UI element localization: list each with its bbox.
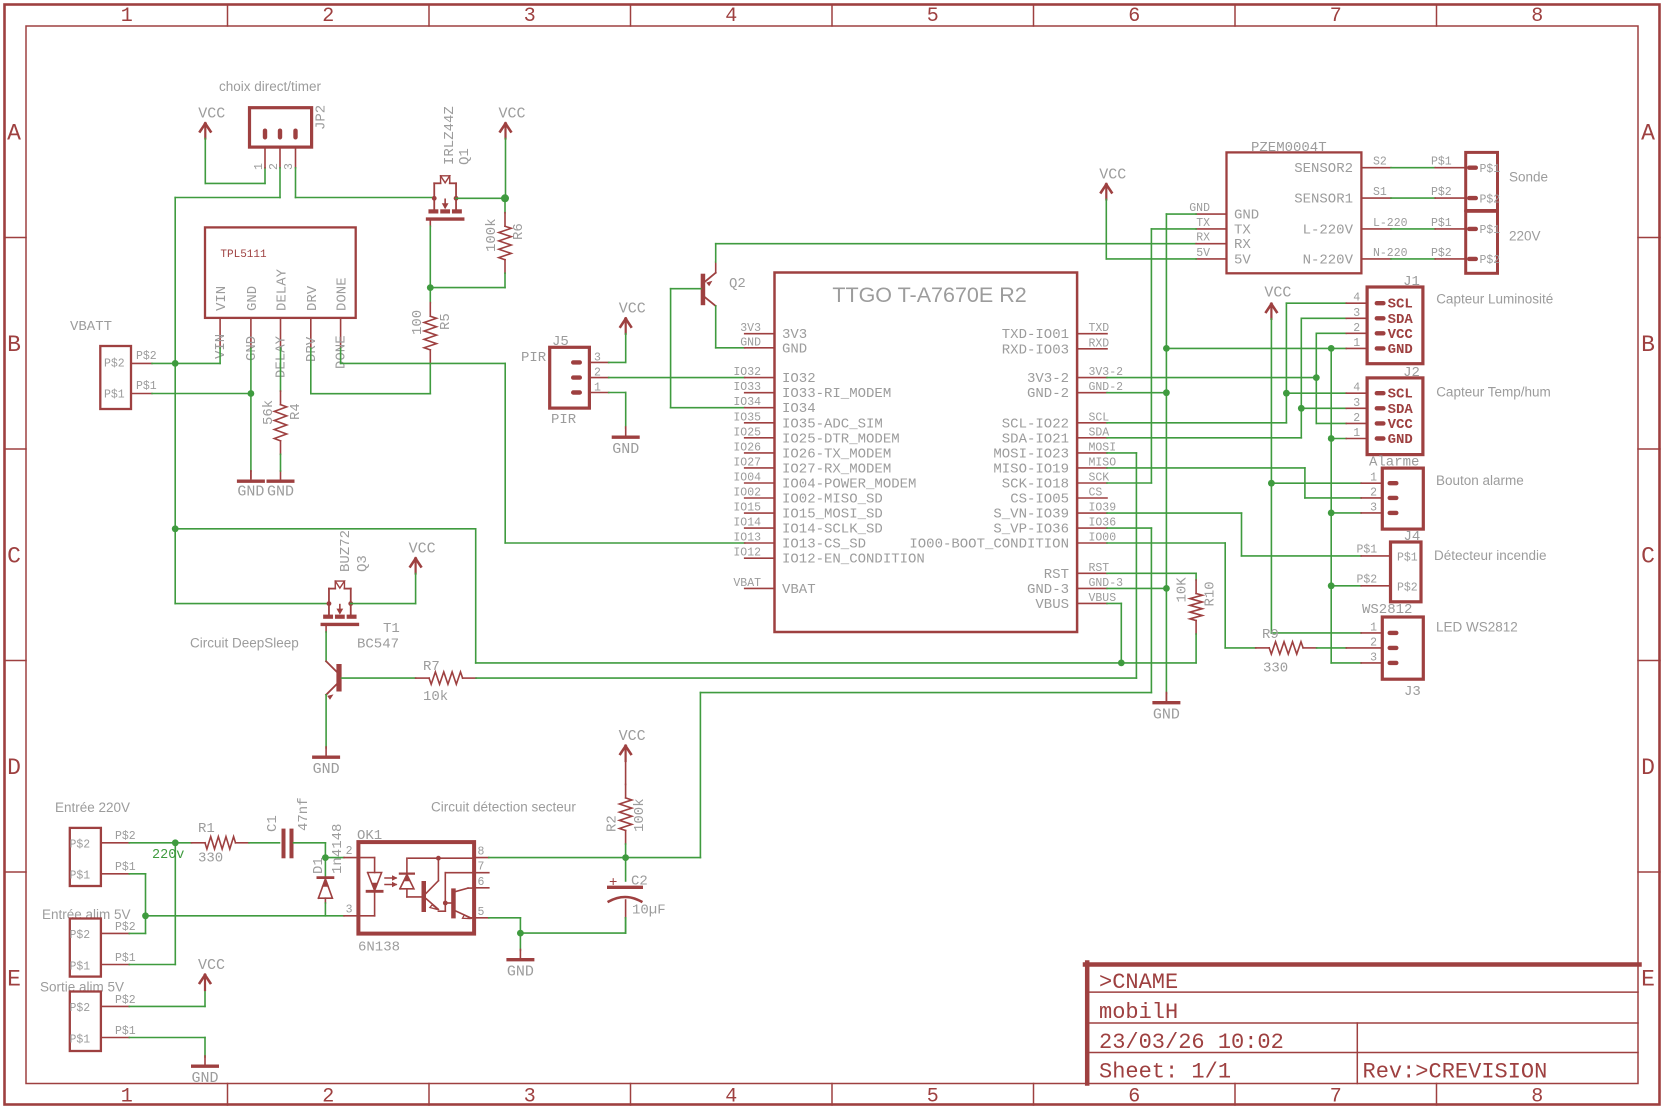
svg-text:R9: R9 <box>1262 627 1279 643</box>
svg-text:P$2: P$2 <box>136 350 157 363</box>
svg-text:3: 3 <box>1353 397 1360 410</box>
svg-text:P$2: P$2 <box>1480 254 1501 267</box>
svg-text:P$1: P$1 <box>1431 217 1452 230</box>
svg-text:A: A <box>7 120 21 146</box>
svg-text:1: 1 <box>121 5 133 28</box>
svg-text:S_VN-IO39: S_VN-IO39 <box>993 507 1069 523</box>
svg-text:P$1: P$1 <box>1397 552 1418 565</box>
svg-text:8: 8 <box>478 846 485 859</box>
svg-text:8: 8 <box>1531 1086 1543 1109</box>
svg-text:47nf: 47nf <box>296 797 312 831</box>
svg-text:330: 330 <box>1263 661 1288 677</box>
svg-text:R5: R5 <box>438 313 454 330</box>
svg-text:7: 7 <box>478 861 485 874</box>
svg-text:IO13: IO13 <box>733 532 761 545</box>
svg-text:VCC: VCC <box>1264 284 1291 301</box>
svg-text:1: 1 <box>1353 427 1360 440</box>
svg-text:TX: TX <box>1234 222 1251 238</box>
svg-text:10µF: 10µF <box>632 903 666 919</box>
svg-text:IO25-DTR_MODEM: IO25-DTR_MODEM <box>782 431 900 447</box>
svg-text:SCL: SCL <box>1388 387 1413 403</box>
svg-text:P$1: P$1 <box>1480 224 1501 237</box>
svg-text:SENSOR1: SENSOR1 <box>1294 192 1353 208</box>
svg-text:GND: GND <box>1153 707 1180 724</box>
svg-text:1n4148: 1n4148 <box>330 824 346 874</box>
svg-text:R7: R7 <box>423 659 440 675</box>
svg-text:GND: GND <box>245 286 261 311</box>
svg-text:4: 4 <box>1353 382 1360 395</box>
svg-text:P$2: P$2 <box>70 929 91 942</box>
svg-text:GND: GND <box>782 341 807 357</box>
svg-text:P$1: P$1 <box>70 1034 91 1047</box>
svg-text:VCC: VCC <box>619 301 646 318</box>
svg-text:BC547: BC547 <box>357 637 399 653</box>
svg-text:TXD: TXD <box>1089 322 1110 335</box>
svg-text:P$2: P$2 <box>1431 247 1452 260</box>
svg-text:P$1: P$1 <box>70 870 91 883</box>
svg-text:R2: R2 <box>605 815 621 832</box>
svg-text:3: 3 <box>346 904 353 917</box>
svg-text:GND: GND <box>267 484 294 501</box>
svg-text:VIN: VIN <box>214 286 230 311</box>
svg-text:GND-3: GND-3 <box>1027 582 1069 598</box>
svg-text:RX: RX <box>1234 237 1251 253</box>
svg-text:IO35: IO35 <box>733 411 761 424</box>
svg-text:23/03/26 10:02: 23/03/26 10:02 <box>1099 1030 1284 1055</box>
svg-text:R10: R10 <box>1203 581 1219 606</box>
svg-text:330: 330 <box>198 851 223 867</box>
svg-text:E: E <box>1641 966 1655 992</box>
svg-text:IO04: IO04 <box>733 472 761 485</box>
svg-text:TX: TX <box>1196 217 1210 230</box>
svg-text:56k: 56k <box>261 400 277 425</box>
svg-text:P$2: P$2 <box>1357 574 1378 587</box>
svg-text:IO34: IO34 <box>733 396 761 409</box>
svg-text:100k: 100k <box>632 798 648 832</box>
svg-text:IO12-EN_CONDITION: IO12-EN_CONDITION <box>782 552 925 568</box>
svg-text:Circuit DeepSleep: Circuit DeepSleep <box>190 636 299 651</box>
svg-text:DELAY: DELAY <box>274 335 290 378</box>
svg-text:Q3: Q3 <box>355 555 371 572</box>
svg-text:P$2: P$2 <box>104 358 125 371</box>
svg-text:IO15_MOSI_SD: IO15_MOSI_SD <box>782 507 883 523</box>
svg-text:R4: R4 <box>288 403 304 420</box>
svg-text:P$2: P$2 <box>115 921 136 934</box>
svg-text:GND: GND <box>244 336 260 361</box>
svg-text:IO04-POWER_MODEM: IO04-POWER_MODEM <box>782 477 916 493</box>
svg-text:IO14: IO14 <box>733 517 761 530</box>
svg-text:Entrée alim 5V: Entrée alim 5V <box>42 907 131 922</box>
svg-text:VCC: VCC <box>198 106 225 123</box>
svg-text:J3: J3 <box>1404 684 1421 700</box>
svg-text:S1: S1 <box>1373 186 1387 199</box>
svg-text:DRV: DRV <box>304 336 320 362</box>
svg-text:P$1: P$1 <box>115 861 136 874</box>
svg-text:SDA: SDA <box>1388 402 1414 418</box>
svg-text:TXD-IO01: TXD-IO01 <box>1002 327 1069 343</box>
svg-text:CS: CS <box>1089 487 1103 500</box>
svg-text:RX: RX <box>1196 232 1210 245</box>
svg-text:RST: RST <box>1044 567 1069 583</box>
svg-text:P$2: P$2 <box>1431 186 1452 199</box>
svg-text:3: 3 <box>1370 501 1377 514</box>
svg-text:GND-2: GND-2 <box>1027 386 1069 402</box>
svg-text:VBUS: VBUS <box>1035 597 1069 613</box>
svg-text:5: 5 <box>927 5 939 28</box>
svg-text:N-220V: N-220V <box>1303 252 1354 268</box>
svg-text:SENSOR2: SENSOR2 <box>1294 161 1353 177</box>
svg-text:S2: S2 <box>1373 156 1387 169</box>
svg-text:GND: GND <box>1388 342 1413 358</box>
svg-text:IO32: IO32 <box>782 371 816 387</box>
svg-text:SCK: SCK <box>1089 472 1110 485</box>
svg-text:10k: 10k <box>423 689 448 705</box>
svg-text:3: 3 <box>283 163 296 170</box>
svg-text:D: D <box>1641 755 1655 781</box>
svg-text:R6: R6 <box>511 223 527 240</box>
svg-text:GND: GND <box>740 336 761 349</box>
svg-text:IO02: IO02 <box>733 487 761 500</box>
svg-text:2: 2 <box>322 1086 334 1109</box>
svg-text:1: 1 <box>1370 472 1377 485</box>
svg-text:DRV: DRV <box>305 285 321 311</box>
svg-text:IO35-ADC_SIM: IO35-ADC_SIM <box>782 416 883 432</box>
svg-text:SCK-IO18: SCK-IO18 <box>1002 477 1069 493</box>
svg-text:IO33-RI_MODEM: IO33-RI_MODEM <box>782 386 891 402</box>
svg-text:6N138: 6N138 <box>358 940 400 956</box>
svg-text:T1: T1 <box>383 621 400 637</box>
svg-text:5: 5 <box>927 1086 939 1109</box>
svg-text:JP2: JP2 <box>314 105 330 130</box>
svg-text:Entrée 220V: Entrée 220V <box>55 800 130 815</box>
svg-text:choix direct/timer: choix direct/timer <box>219 79 322 94</box>
svg-text:R1: R1 <box>198 821 215 837</box>
svg-text:P$2: P$2 <box>70 839 91 852</box>
svg-text:VCC: VCC <box>1099 166 1126 183</box>
svg-text:GND: GND <box>237 484 264 501</box>
svg-text:IO26-TX_MODEM: IO26-TX_MODEM <box>782 446 891 462</box>
svg-text:10K: 10K <box>1175 577 1191 603</box>
svg-text:LED WS2812: LED WS2812 <box>1436 620 1518 635</box>
svg-text:3V3-2: 3V3-2 <box>1027 371 1069 387</box>
svg-text:MISO-IO19: MISO-IO19 <box>993 461 1069 477</box>
svg-text:2: 2 <box>1370 636 1377 649</box>
svg-text:IO27-RX_MODEM: IO27-RX_MODEM <box>782 461 891 477</box>
svg-text:P$2: P$2 <box>115 994 136 1007</box>
svg-text:3: 3 <box>524 5 536 28</box>
svg-text:DELAY: DELAY <box>275 268 291 311</box>
svg-text:GND: GND <box>1234 208 1259 224</box>
svg-text:mobilH: mobilH <box>1099 1000 1178 1025</box>
svg-text:4: 4 <box>725 5 737 28</box>
svg-text:2: 2 <box>1353 322 1360 335</box>
svg-text:SDA-IO21: SDA-IO21 <box>1002 431 1069 447</box>
svg-text:Sheet: 1/1: Sheet: 1/1 <box>1099 1060 1231 1085</box>
svg-text:D1: D1 <box>311 857 327 874</box>
svg-text:VCC: VCC <box>1388 327 1414 343</box>
svg-text:C1: C1 <box>265 815 281 832</box>
svg-text:Q2: Q2 <box>729 276 746 292</box>
svg-text:IO13-CS_SD: IO13-CS_SD <box>782 537 866 553</box>
svg-text:RXD: RXD <box>1089 337 1110 350</box>
svg-text:D: D <box>7 755 21 781</box>
svg-text:C: C <box>1641 543 1655 569</box>
svg-text:1: 1 <box>253 163 266 170</box>
svg-text:P$1: P$1 <box>70 961 91 974</box>
svg-text:IO14-SCLK_SD: IO14-SCLK_SD <box>782 522 883 538</box>
svg-text:IO34: IO34 <box>782 401 816 417</box>
svg-text:P$1: P$1 <box>104 389 125 402</box>
svg-text:7: 7 <box>1330 1086 1342 1109</box>
svg-text:GND: GND <box>507 964 534 981</box>
svg-text:IO33: IO33 <box>733 381 761 394</box>
svg-text:4: 4 <box>725 1086 737 1109</box>
svg-text:P$1: P$1 <box>1357 544 1378 557</box>
svg-text:P$1: P$1 <box>115 952 136 965</box>
svg-text:IO27: IO27 <box>733 456 761 469</box>
svg-text:GND: GND <box>313 761 340 778</box>
svg-text:SCL: SCL <box>1089 411 1110 424</box>
svg-text:RST: RST <box>1089 562 1110 575</box>
svg-text:Sonde: Sonde <box>1509 170 1548 185</box>
svg-text:SCL: SCL <box>1388 297 1413 313</box>
svg-text:L-220: L-220 <box>1373 217 1408 230</box>
svg-text:2: 2 <box>322 5 334 28</box>
svg-text:IO32: IO32 <box>733 366 761 379</box>
svg-text:PIR: PIR <box>521 350 547 366</box>
svg-text:Circuit détection secteur: Circuit détection secteur <box>431 800 576 815</box>
svg-text:P$2: P$2 <box>1397 582 1418 595</box>
svg-text:VCC: VCC <box>1388 417 1414 433</box>
svg-text:C2: C2 <box>631 874 648 890</box>
svg-text:5V: 5V <box>1196 247 1210 260</box>
svg-text:2: 2 <box>268 163 281 170</box>
svg-text:PIR: PIR <box>551 412 577 428</box>
svg-text:3: 3 <box>1353 307 1360 320</box>
svg-text:C: C <box>7 543 21 569</box>
svg-text:A: A <box>1641 120 1655 146</box>
svg-text:DONE: DONE <box>335 277 351 311</box>
svg-text:1: 1 <box>121 1086 133 1109</box>
svg-text:B: B <box>1641 332 1655 358</box>
svg-text:P$2: P$2 <box>70 1002 91 1015</box>
svg-text:IO12: IO12 <box>733 547 761 560</box>
svg-text:B: B <box>7 332 21 358</box>
svg-text:220v: 220v <box>152 848 184 863</box>
svg-text:GND: GND <box>612 441 639 458</box>
svg-text:P$1: P$1 <box>136 380 157 393</box>
svg-text:IO15: IO15 <box>733 502 761 515</box>
svg-text:2: 2 <box>1353 412 1360 425</box>
svg-text:P$1: P$1 <box>1431 156 1452 169</box>
svg-text:IO00-BOOT_CONDITION: IO00-BOOT_CONDITION <box>909 537 1069 553</box>
svg-text:>CNAME: >CNAME <box>1099 970 1178 995</box>
svg-text:VCC: VCC <box>198 957 225 974</box>
svg-text:S_VP-IO36: S_VP-IO36 <box>993 522 1069 538</box>
svg-text:L-220V: L-220V <box>1303 222 1354 238</box>
svg-text:E: E <box>7 966 21 992</box>
svg-text:IO26: IO26 <box>733 441 761 454</box>
svg-text:GND: GND <box>191 1070 218 1087</box>
svg-text:2: 2 <box>1370 486 1377 499</box>
svg-text:Q1: Q1 <box>457 148 473 165</box>
svg-text:P$1: P$1 <box>115 1025 136 1038</box>
svg-text:PZEM0004T: PZEM0004T <box>1251 140 1327 156</box>
svg-text:VIN: VIN <box>213 334 229 359</box>
svg-text:220V: 220V <box>1509 229 1541 244</box>
svg-text:VCC: VCC <box>619 728 646 745</box>
svg-text:VBAT: VBAT <box>733 577 761 590</box>
svg-text:3V3: 3V3 <box>740 322 761 335</box>
svg-text:N-220: N-220 <box>1373 247 1408 260</box>
svg-text:VCC: VCC <box>409 541 436 558</box>
svg-text:SDA: SDA <box>1089 426 1110 439</box>
svg-text:100k: 100k <box>484 218 500 252</box>
svg-text:IO02-MISO_SD: IO02-MISO_SD <box>782 492 883 508</box>
svg-text:SCL-IO22: SCL-IO22 <box>1002 416 1069 432</box>
svg-text:4: 4 <box>1353 292 1360 305</box>
svg-text:2: 2 <box>346 845 353 858</box>
svg-text:5V: 5V <box>1234 252 1251 268</box>
svg-text:VBAT: VBAT <box>782 582 816 598</box>
svg-text:P$2: P$2 <box>1480 194 1501 207</box>
svg-text:Détecteur incendie: Détecteur incendie <box>1434 548 1547 563</box>
svg-text:6: 6 <box>1128 5 1140 28</box>
svg-text:CS-IO05: CS-IO05 <box>1010 492 1069 508</box>
svg-text:8: 8 <box>1531 5 1543 28</box>
svg-text:Capteur Temp/hum: Capteur Temp/hum <box>1436 385 1551 400</box>
svg-text:Capteur Luminosité: Capteur Luminosité <box>1436 292 1553 307</box>
svg-text:3: 3 <box>524 1086 536 1109</box>
svg-text:VBATT: VBATT <box>70 319 112 335</box>
svg-text:VCC: VCC <box>499 106 526 123</box>
svg-text:100: 100 <box>410 310 426 335</box>
svg-text:BUZ72: BUZ72 <box>338 530 354 572</box>
svg-text:GND: GND <box>1388 432 1413 448</box>
svg-text:1: 1 <box>1353 337 1360 350</box>
svg-text:P$2: P$2 <box>115 830 136 843</box>
svg-text:6: 6 <box>1128 1086 1140 1109</box>
svg-text:RXD-IO03: RXD-IO03 <box>1002 342 1069 358</box>
svg-text:SDA: SDA <box>1388 312 1414 328</box>
svg-text:TPL5111: TPL5111 <box>220 249 267 261</box>
svg-text:IO25: IO25 <box>733 426 761 439</box>
svg-text:TTGO T-A7670E R2: TTGO T-A7670E R2 <box>832 283 1026 307</box>
svg-text:7: 7 <box>1330 5 1342 28</box>
svg-text:P$1: P$1 <box>1480 163 1501 176</box>
svg-text:IRLZ44Z: IRLZ44Z <box>442 106 458 165</box>
svg-text:GND: GND <box>1189 202 1210 215</box>
svg-text:MOSI-IO23: MOSI-IO23 <box>993 446 1069 462</box>
svg-text:Rev:>CREVISION: Rev:>CREVISION <box>1363 1060 1548 1085</box>
svg-text:Bouton alarme: Bouton alarme <box>1436 473 1524 488</box>
